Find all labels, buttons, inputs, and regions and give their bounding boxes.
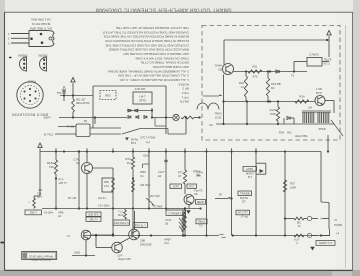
wire: vertical at x149 (148, 152, 150, 209)
wire: Q3-Q4 link (120, 238, 130, 244)
wire: opto LED row (59, 117, 127, 119)
svg-text:BN HE17NT-01: BN HE17NT-01 (31, 22, 50, 26)
wire: Q4 base feed (134, 211, 136, 229)
wire: bus B (42, 208, 201, 210)
svg-text:R2: R2 (271, 86, 275, 90)
value label NNNPY77L (316, 241, 335, 246)
svg-text:W7A: W7A (125, 157, 131, 161)
capacitor C6 electrolytic (33, 198, 36, 208)
value label C7P5088 (166, 210, 186, 215)
wire: power top rail (224, 39, 329, 41)
svg-text:114: 114 (127, 161, 132, 165)
svg-text:JOR7: JOR7 (172, 185, 179, 189)
transistor Q5 pass transistor (223, 64, 234, 75)
svg-text:Tr2: Tr2 (199, 225, 203, 228)
svg-text:TRA3: TRA3 (215, 112, 222, 116)
resistor R31 M22 (124, 210, 127, 219)
svg-text:NA: NA (76, 161, 80, 165)
diode pair D3 D4 (128, 116, 131, 119)
resistor R23 (266, 78, 269, 96)
svg-text:C12: C12 (164, 241, 169, 245)
svg-text:C7WA3: C7WA3 (309, 53, 319, 57)
resistor R19 114 (131, 157, 134, 169)
wire: Q5 collector to top rail (223, 40, 225, 65)
svg-text:10M 2N3-1.5: 10M 2N3-1.5 (114, 221, 130, 225)
dashed enclosure: power supply section (202, 26, 340, 141)
svg-text:R62: R62 (104, 180, 109, 184)
svg-text:NF 2: NF 2 (182, 87, 189, 91)
svg-text:APB?: APB? (164, 238, 171, 242)
svg-text:Tser7G: Tser7G (194, 189, 203, 193)
svg-text:2N5 3PC: 2N5 3PC (88, 212, 99, 216)
wire: output bracket (328, 203, 330, 230)
wire: vertical at x206 (206, 152, 208, 236)
title block info box (22, 252, 57, 260)
svg-text:COUPLED AND TONE AND VOLUME CO: COUPLED AND TONE AND VOLUME CONTROLS ARE… (106, 43, 189, 47)
svg-text:402: 402 (287, 131, 292, 135)
margin tick mark (9, 57, 12, 59)
svg-text:C14 100n: C14 100n (98, 204, 110, 208)
svg-text:BOARD IN SAME POSITION ADJUSTE: BOARD IN SAME POSITION ADJUSTED ON THE S… (104, 35, 189, 39)
svg-text:P7V: P7V (59, 178, 64, 182)
resistor R41 (294, 217, 304, 220)
wire: GND stub (85, 240, 87, 256)
wire: vertical at x79 (78, 152, 80, 209)
svg-text:R24: R24 (299, 95, 305, 99)
svg-text:+: + (320, 217, 322, 221)
wire: control block spine (92, 86, 94, 128)
wire: power lower rail (216, 123, 334, 125)
value label R7 L777 (236, 210, 250, 215)
value label 10M 2N3-1.5 (113, 220, 130, 225)
svg-text:R7 1M: R7 1M (68, 196, 77, 200)
arrow: AC input direction (203, 95, 219, 97)
svg-text:P77: P77 (178, 171, 183, 175)
svg-text:04LTN: 04LTN (180, 100, 189, 104)
wire: output row 1 (285, 218, 294, 220)
jack J2 output (304, 218, 307, 220)
resistor R21 470 (248, 70, 262, 73)
svg-text:AM YEG: AM YEG (140, 183, 150, 187)
svg-text:REPLACED FOR TONE AND VOLUME C: REPLACED FOR TONE AND VOLUME CONTROL WIR… (108, 48, 189, 52)
wire: lamp loop (165, 86, 167, 134)
svg-text:A7R 40P: A7R 40P (135, 87, 146, 91)
svg-text:SWITCH SIGNAL TREMOLO CTRL: SWITCH SIGNAL TREMOLO CTRL (140, 61, 189, 65)
svg-text:C88: C88 (140, 239, 145, 243)
svg-text:M22: M22 (118, 214, 123, 217)
svg-text:Pr7: Pr7 (146, 141, 151, 145)
svg-text:SMART GUITAR AMPLIFIER SCHEMAT: SMART GUITAR AMPLIFIER SCHEMATIC DIAGRAM (95, 7, 231, 13)
transistor Q3 (112, 242, 123, 253)
svg-text:GND: GND (74, 251, 80, 255)
svg-text:LP/BL: LP/BL (246, 167, 254, 171)
resistor R12 (181, 116, 194, 119)
resistor R28 emitter (184, 209, 186, 236)
svg-text:LM-T: LM-T (139, 95, 146, 99)
svg-text:AND TREMOLO FOR MODELED VOLUME: AND TREMOLO FOR MODELED VOLUME SET (123, 52, 189, 56)
svg-text:C7AL: C7AL (73, 158, 80, 162)
svg-text:2N7 A2Z: 2N7 A2Z (150, 195, 160, 198)
svg-text:C77: C77 (37, 195, 42, 199)
svg-text:C6L: C6L (37, 192, 42, 196)
svg-text:R6M: R6M (140, 170, 146, 174)
resistor R27 (183, 170, 186, 184)
TO-3 can pinout DM0-5 regulator (17, 82, 43, 108)
pointer line to speaker (331, 120, 343, 136)
jack J3 output (307, 233, 311, 237)
potentiometer VR1 (182, 210, 184, 236)
wire: bus A horizontal supply rail (40, 151, 321, 153)
value label R5ar2 (196, 219, 207, 224)
svg-text:VIA 1 GRN 8041: VIA 1 GRN 8041 (31, 18, 51, 22)
svg-text:THE LAYOUT DIAGRAM SHOWN AT LE: THE LAYOUT DIAGRAM SHOWN AT LEFT AND THE (116, 26, 189, 30)
supply arrow +12V (71, 78, 75, 82)
svg-text:OPTO: OPTO (139, 99, 147, 103)
value label R7A 3L-7 (133, 223, 148, 228)
svg-text:E3: E3 (158, 174, 162, 178)
svg-text:Q-P: Q-P (118, 254, 123, 258)
svg-text:R34: R34 (279, 131, 284, 135)
transistor Q4 (129, 229, 140, 240)
resistor R24 (295, 100, 309, 103)
svg-text:C4: C4 (140, 174, 144, 178)
resistor R62 C13 network (102, 178, 113, 192)
wire: opto output junction (151, 108, 153, 118)
svg-text:TIP 2: TIP 2 (181, 91, 189, 95)
wire: footswitch contacts (90, 127, 121, 129)
resistor R22 12 (244, 76, 247, 97)
wire: +12 feed (60, 95, 93, 97)
svg-text:C7: C7 (67, 234, 71, 238)
transistor Q7 (81, 230, 91, 240)
svg-text:R5ar2: R5ar2 (198, 220, 206, 224)
svg-text:12: 12 (241, 85, 245, 89)
ground (310, 247, 315, 251)
svg-text:470: 470 (253, 75, 258, 79)
connector J1 footswitch (76, 124, 90, 137)
svg-text:TONE ON SIGNAL TEST WITH 4 OHM: TONE ON SIGNAL TEST WITH 4 OHM (135, 56, 189, 60)
svg-text:B.7: B.7 (248, 175, 253, 179)
resistor R18A 51K (54, 160, 57, 174)
svg-text:R7 L777: R7 L777 (238, 211, 248, 215)
svg-text:100 T7: 100 T7 (59, 181, 68, 185)
svg-text:4People TYWR 190 LE: 4People TYWR 190 LE (29, 255, 53, 257)
wire: ground bus C with break (83, 235, 219, 237)
lamp LP1 (173, 114, 179, 120)
svg-text:C7C7 A7DW: C7C7 A7DW (140, 136, 156, 140)
svg-text:C13: C13 (104, 184, 109, 188)
svg-text:2N5-7: 2N5-7 (30, 211, 38, 215)
wire: regulator connections (322, 61, 329, 63)
value label JOR7 (170, 184, 182, 189)
svg-text:PPTA: PPTA (193, 170, 200, 174)
dashed box: regulator module (100, 91, 116, 100)
svg-text:MONT: MONT (246, 172, 254, 176)
arrow: signal pointer (146, 198, 153, 204)
svg-text:LC32: LC32 (215, 116, 222, 120)
supply arrow +V preamp (38, 143, 42, 147)
ground (125, 138, 129, 141)
supply arrow +V (327, 31, 331, 35)
svg-text:B1: B1 (84, 119, 88, 123)
svg-text:HELLY80L: HELLY80L (295, 134, 308, 138)
scan fold line (345, 25, 347, 268)
svg-text:R7C: R7C (189, 184, 194, 188)
resistor R42 (294, 234, 304, 237)
svg-text:R21: R21 (252, 65, 258, 69)
svg-text:PHITG: PHITG (240, 196, 248, 200)
svg-text:51K: 51K (49, 165, 54, 169)
ground arrow marker (186, 210, 190, 214)
svg-text:B7: B7 (219, 193, 223, 197)
wire: mid-to-lower rail link (246, 102, 248, 125)
wire: power mid rail (224, 101, 316, 103)
feedback loop with arrowhead (256, 162, 266, 164)
wire: transformer vertical feed (223, 75, 225, 125)
wire: Q1 base feed (93, 167, 114, 169)
svg-text:PVWR: PVWR (334, 223, 342, 227)
arrow: signal flow B7 (215, 198, 228, 200)
value label TRA/DB PHITG (238, 191, 252, 196)
svg-text:3. ALL NUMBERED WITH SAME TERM: 3. ALL NUMBERED WITH SAME TERMINAL WIRE … (107, 69, 189, 73)
svg-text:R57: R57 (290, 182, 295, 186)
svg-text:Raptor 555: Raptor 555 (118, 258, 131, 261)
value label R7C (187, 184, 197, 188)
wire: vertical at x256 (255, 152, 257, 236)
svg-text:VC-2: VC-2 (324, 62, 331, 66)
wire: vertical at x231 (231, 152, 233, 236)
wire: power section output to bus A (327, 135, 329, 152)
resistor R20 (132, 180, 135, 192)
opto-isolator U3 4N28 (133, 92, 152, 104)
svg-text:MC: MC (297, 221, 301, 225)
TO-92 package pinouts (2N3906, 2N5088) (20, 57, 27, 71)
svg-text:REULATOR: REULATOR (76, 102, 90, 105)
svg-text:A1-2M+: A1-2M+ (44, 211, 54, 215)
capacitor C11 drop wire (63, 96, 65, 102)
wire: bus A right corner down (320, 152, 322, 203)
svg-text:+: + (28, 200, 30, 204)
svg-text:BY2: BY2 (131, 141, 137, 145)
svg-text:PLACED IN TONE SHIELD POSITION: PLACED IN TONE SHIELD POSITION ON SCHEMA… (105, 39, 189, 43)
svg-text:C16?: C16? (158, 170, 165, 174)
diode pair D1 D2 (128, 109, 131, 112)
wire: emitter rail (234, 71, 308, 73)
svg-text:NEOP: NEOP (197, 200, 205, 204)
svg-text:A7: A7 (178, 174, 182, 178)
svg-text:R7A 3L-7: R7A 3L-7 (135, 223, 146, 227)
svg-text:TE: TE (197, 173, 201, 177)
svg-text:R133: R133 (270, 108, 277, 112)
transformer T1 secondary winding (197, 103, 219, 109)
diode D6 (287, 116, 290, 119)
svg-text:D44H: D44H (215, 64, 222, 68)
svg-text:JY: JY (334, 218, 337, 222)
svg-text:H8: H8 (194, 192, 198, 196)
diode D5 (276, 70, 279, 73)
transistor Q1 (82, 163, 93, 174)
value label 2N5-7 (25, 210, 42, 215)
svg-text:+C74BK: +C74BK (153, 205, 163, 208)
resistor R11 (72, 96, 74, 100)
svg-text:100K: 100K (270, 112, 276, 116)
svg-text:DVL TI 8WE 15PH: DVL TI 8WE 15PH (30, 27, 52, 31)
svg-text:SPKR: SPKR (318, 127, 325, 131)
svg-text:REG: REG (105, 94, 111, 98)
svg-text:2. ALL CAPACITOR VALUES ARE IN: 2. ALL CAPACITOR VALUES ARE IN UF - THE … (118, 74, 189, 78)
margin tick mark 2 (1, 242, 5, 244)
capacitor C1 (62, 89, 65, 91)
sheet frame border (4, 12, 6, 270)
svg-text:+: + (320, 234, 322, 238)
value label 2N5 3PC (86, 212, 101, 216)
svg-text:APB: APB (58, 211, 64, 215)
svg-text:K2Y: K2Y (294, 238, 299, 242)
svg-text:GN P+: GN P+ (98, 196, 107, 200)
svg-text:BYRa: BYRa (131, 138, 139, 142)
transistor Q2 (184, 195, 194, 205)
transistor Q6 output (315, 96, 325, 106)
wire: vertical at x285 (284, 152, 286, 236)
svg-text:+1: +1 (336, 231, 340, 235)
TO-220 package pinout with pins 1 2 3 (11, 33, 29, 35)
svg-text:C7P5088 T7: C7P5088 T7 (168, 211, 183, 215)
svg-text:2RL-7v: 2RL-7v (89, 217, 98, 221)
svg-text:HLW: HLW (143, 154, 149, 158)
svg-text:Q5: Q5 (218, 68, 222, 72)
svg-text:TRA/DB: TRA/DB (240, 192, 250, 196)
resistor R133 100K (276, 107, 279, 121)
wire: vertical at x166 (165, 152, 167, 209)
svg-text:NOTES: NOTES (179, 82, 190, 86)
value label 2RL-7v (86, 217, 101, 221)
svg-text:T5: T5 (291, 74, 295, 78)
value label LP/BL MONT (243, 167, 257, 172)
svg-text:100K: 100K (290, 186, 296, 190)
svg-text:CHASSIS AND TONE POSITION ADJU: CHASSIS AND TONE POSITION ADJUSTED TO TH… (102, 30, 189, 34)
capacitor C16 (164, 159, 167, 161)
svg-text:MLP+: MLP+ (44, 115, 52, 119)
svg-text:DR12345: DR12345 (140, 243, 152, 247)
svg-text:TIP 1: TIP 1 (181, 95, 189, 99)
svg-text:DT: DT (242, 200, 246, 204)
svg-text:A2: A2 (58, 214, 62, 218)
svg-text:Emick gate 190/22: Emick gate 190/22 (31, 258, 51, 261)
svg-text:(7-4u): (7-4u) (241, 215, 248, 219)
regulator U2 78L05 (307, 58, 322, 67)
svg-text:AND OVER REGULATION: AND OVER REGULATION (153, 65, 189, 69)
switch SW1 lever (122, 129, 140, 135)
svg-text:R7R: R7R (316, 91, 322, 95)
wire: vertical x113 lower (112, 209, 114, 235)
value label NEOP (196, 200, 206, 205)
svg-text:1. ALL RESISTOR VALUES ARE IN: 1. ALL RESISTOR VALUES ARE IN OHMS - K 1… (120, 78, 189, 82)
wire: control block top rail (93, 85, 166, 87)
svg-text:NNNPY77L: NNNPY77L (319, 241, 333, 245)
svg-text:AC: AC (209, 123, 213, 127)
svg-text:LB: LB (165, 223, 168, 226)
resistor R57 100K (283, 180, 286, 192)
output transformer T2 windings and speaker SPKR (302, 112, 304, 123)
svg-text:M 74L2: M 74L2 (44, 133, 53, 137)
